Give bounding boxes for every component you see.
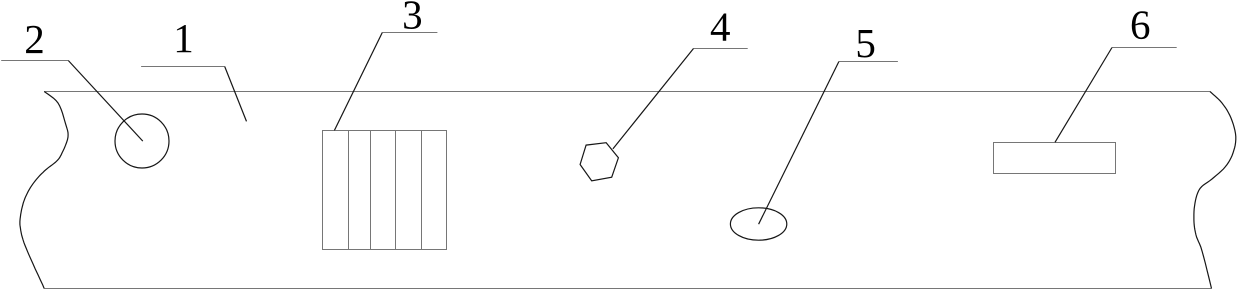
strip bottom edge (44, 288, 1211, 290)
hexagon feature (item 4) (580, 143, 618, 181)
svg-text:5: 5 (855, 20, 876, 66)
leader 1 pointer (225, 67, 247, 122)
svg-text:3: 3 (402, 0, 423, 38)
stripe divider 2 (370, 131, 372, 250)
leader 6 horizontal bar (1112, 47, 1177, 49)
leader 5 horizontal bar (839, 61, 898, 63)
leader 6 pointer (1055, 48, 1112, 143)
stripe divider 1 (348, 131, 350, 250)
strip top edge (part 1 surface) (44, 91, 1210, 93)
stripe divider 4 (421, 131, 423, 250)
svg-text:1: 1 (173, 15, 194, 61)
left break line (wavy edge) (20, 92, 68, 289)
stripe divider 3 (395, 131, 397, 250)
small rectangle feature (item 6) (994, 143, 1116, 174)
right break line (wavy edge) (1194, 92, 1236, 289)
svg-text:2: 2 (24, 16, 45, 62)
leader 2 pointer (68, 61, 143, 142)
svg-text:6: 6 (1130, 2, 1151, 48)
leader 1 horizontal bar (141, 66, 225, 68)
striped rectangle feature (item 3) (323, 131, 447, 250)
leader 2 horizontal bar (1, 60, 68, 62)
leader 4 horizontal bar (694, 48, 748, 50)
circle feature (item 2) (115, 114, 169, 168)
leader 3 horizontal bar (382, 32, 437, 34)
ellipse feature (item 5) (730, 208, 786, 240)
leader 3 pointer (334, 33, 382, 131)
leader 4 pointer (613, 49, 694, 149)
leader 5 pointer (759, 62, 839, 225)
svg-text:4: 4 (710, 3, 731, 49)
